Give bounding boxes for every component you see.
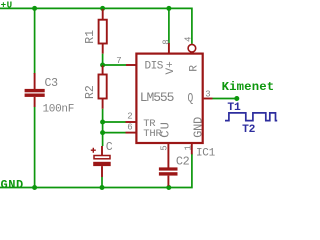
node junction GND/C: [100, 185, 105, 190]
node junction +U/C3: [32, 6, 37, 11]
svg-text:7: 7: [116, 56, 121, 66]
svg-text:3: 3: [205, 90, 210, 100]
pin 7 stub: [126, 64, 137, 66]
svg-text:Kimenet: Kimenet: [222, 80, 275, 94]
waveform square wave: [225, 113, 277, 121]
wire pin8: [168, 8, 170, 43]
svg-text:R2: R2: [84, 85, 97, 99]
node junction GND/C3: [32, 185, 37, 190]
GND rail: [0, 154, 192, 188]
svg-text:LM555: LM555: [140, 90, 174, 105]
wire R2 to junction pin2: [102, 109, 104, 133]
wire junction to pin7: [103, 64, 126, 66]
wire C3 bottom to GND: [34, 107, 36, 188]
svg-text:CU: CU: [159, 121, 173, 138]
node junction GND/C2: [166, 185, 171, 190]
plus sign of C: [91, 148, 96, 153]
svg-text:4: 4: [184, 37, 194, 42]
svg-text:C2: C2: [176, 155, 190, 169]
svg-text:T2: T2: [242, 124, 256, 136]
pin 6 stub: [126, 132, 137, 134]
svg-text:V+: V+: [165, 61, 177, 74]
node junction +U/pin8: [166, 6, 171, 11]
wire R1 to junction: [102, 54, 104, 65]
svg-text:C: C: [106, 141, 113, 154]
wire pin3 Kimenet: [213, 98, 237, 100]
node junction pin2: [100, 120, 105, 125]
pin 1 stub: [191, 144, 193, 154]
wire R2 top lead: [102, 66, 104, 75]
capacitor C2: [159, 167, 178, 185]
svg-text:R: R: [188, 65, 200, 72]
wire R1 bottom lead: [102, 44, 104, 54]
svg-text:T1: T1: [227, 102, 241, 114]
op-amp/IC IC1 LM555 body: [136, 54, 202, 143]
pin 8 stub: [168, 43, 170, 54]
wire junction to pin6: [103, 132, 126, 134]
wire junction to pin2: [103, 121, 126, 123]
svg-text:R1: R1: [84, 30, 97, 44]
wire junction to C top: [102, 133, 104, 146]
pin 2 stub: [126, 121, 137, 123]
wire R1 top lead: [102, 9, 104, 20]
node Kimenet wire end: [234, 96, 239, 101]
node junction R1/R2/pin7: [100, 63, 105, 68]
svg-text:DIS: DIS: [145, 60, 164, 72]
node junction +U/R1: [100, 6, 105, 11]
pin 5 stub + C2 lead: [167, 144, 169, 168]
svg-text:IC1: IC1: [196, 148, 216, 160]
svg-text:GND: GND: [1, 178, 24, 192]
capacitor C (polarized): [93, 146, 111, 177]
wire C3 top: [34, 8, 36, 74]
svg-text:8: 8: [161, 39, 171, 44]
svg-text:5: 5: [159, 145, 169, 150]
svg-text:100nF: 100nF: [43, 104, 75, 116]
resistor R2: [99, 75, 107, 99]
wire R2 bottom lead: [102, 99, 104, 109]
svg-text:2: 2: [127, 112, 132, 122]
svg-text:GND: GND: [192, 117, 206, 138]
wire C bottom to GND: [101, 177, 103, 188]
wire +U top rail: [0, 8, 192, 44]
pin 4 inversion bubble: [188, 44, 196, 52]
capacitor C3: [25, 73, 45, 107]
pin 3 stub: [204, 98, 213, 100]
svg-text:6: 6: [127, 123, 132, 133]
node junction pin6: [100, 130, 105, 135]
svg-text:C3: C3: [45, 77, 59, 90]
resistor R1: [99, 20, 107, 44]
svg-text:Q: Q: [188, 92, 194, 105]
